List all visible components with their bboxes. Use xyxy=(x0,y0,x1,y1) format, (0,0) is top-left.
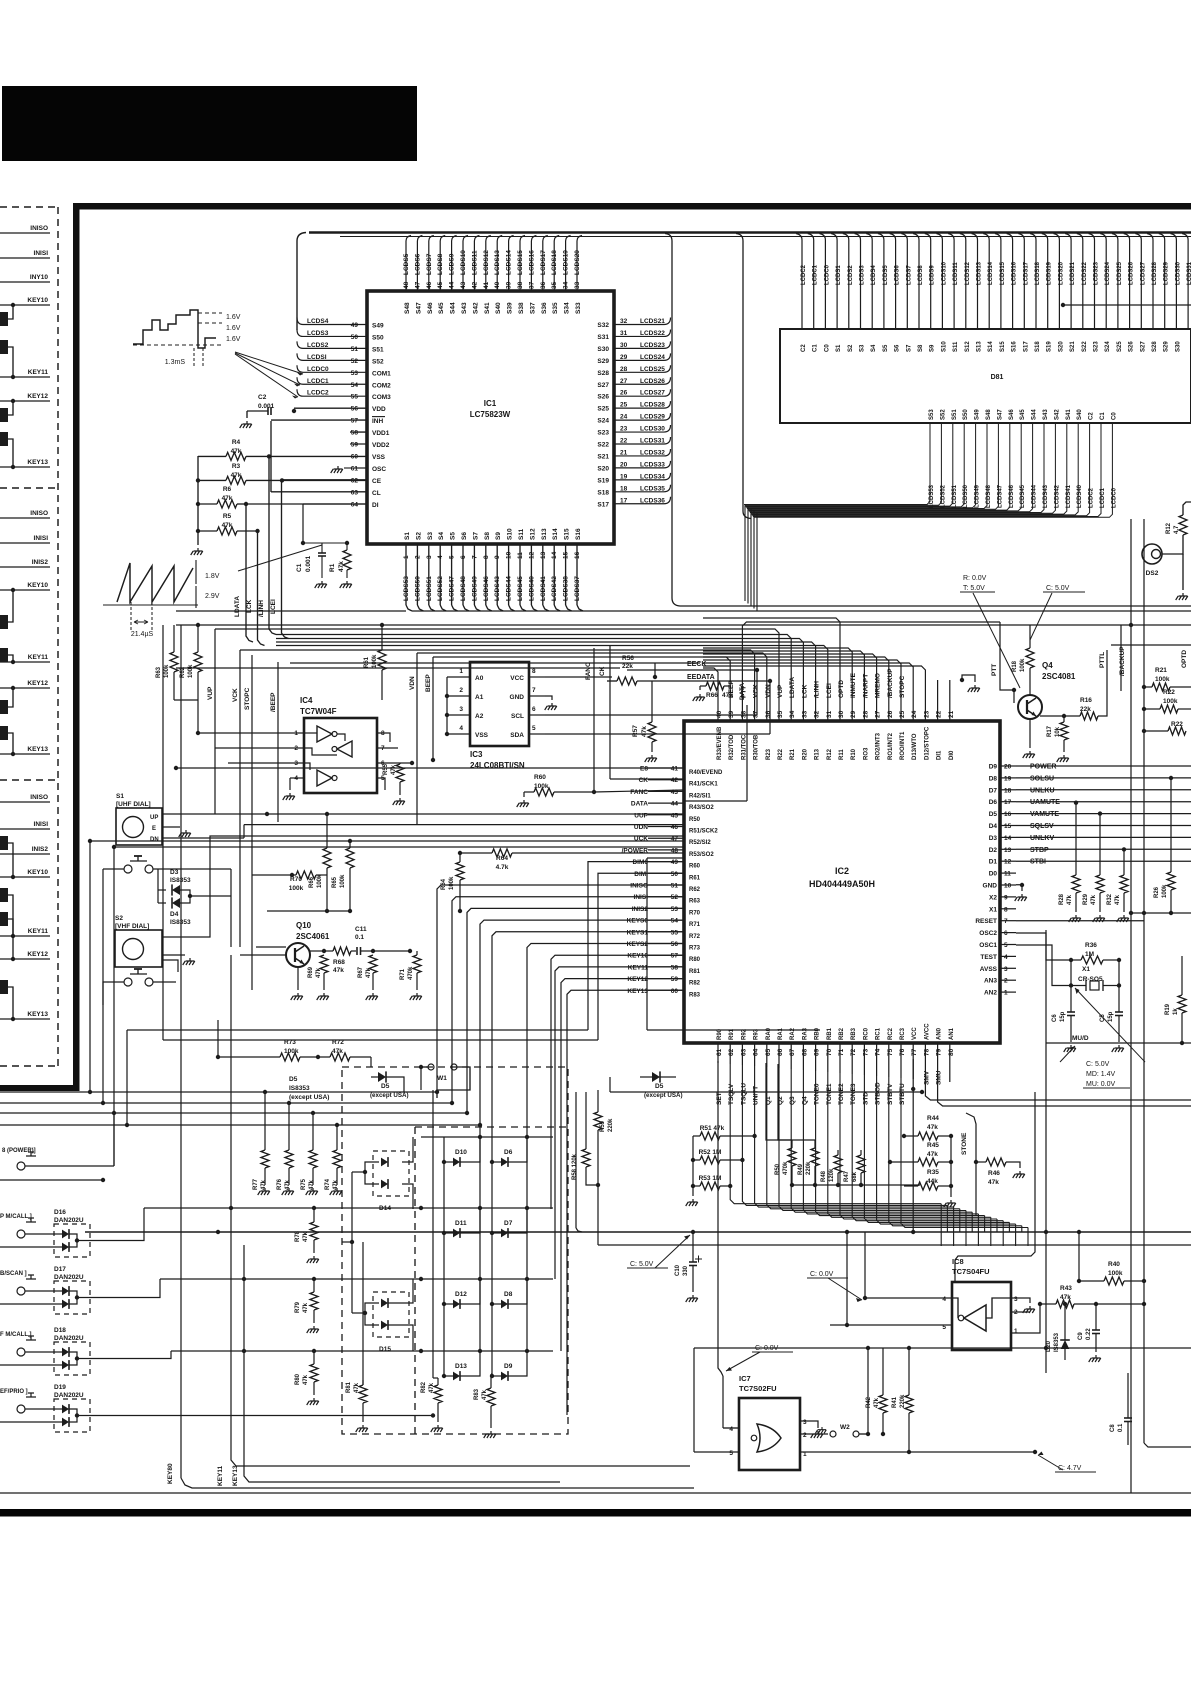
package D15 (dual diode) xyxy=(373,1292,409,1337)
svg-text:LCDS48: LCDS48 xyxy=(986,484,992,508)
svg-text:S11: S11 xyxy=(518,528,525,540)
dashed matrix enclosure outer xyxy=(342,1067,568,1434)
svg-text:S46: S46 xyxy=(427,302,434,314)
svg-text:32: 32 xyxy=(814,710,821,718)
svg-text:STOPC: STOPC xyxy=(244,687,251,710)
svg-text:RO1/INT2: RO1/INT2 xyxy=(888,732,894,760)
svg-text:S44: S44 xyxy=(1032,409,1038,420)
svg-text:AVSS: AVSS xyxy=(980,966,998,973)
frame bottom-left arm xyxy=(0,1085,79,1091)
wire/pin D81 top LCDS24 xyxy=(1100,234,1106,330)
wire/pin D81 top LCDS4 xyxy=(866,234,872,330)
svg-text:64: 64 xyxy=(753,1048,760,1056)
svg-text:9: 9 xyxy=(494,555,501,559)
svg-text:STONE: STONE xyxy=(961,1132,968,1155)
svg-text:S3: S3 xyxy=(860,344,866,352)
svg-text:51: 51 xyxy=(351,346,359,353)
svg-text:VCC: VCC xyxy=(510,675,524,682)
svg-text:R58 120k: R58 120k xyxy=(572,1153,578,1180)
svg-text:D7: D7 xyxy=(989,787,998,794)
svg-text:S40: S40 xyxy=(1077,409,1083,420)
svg-text:LCDS14: LCDS14 xyxy=(506,250,513,275)
svg-text:11: 11 xyxy=(1004,871,1011,878)
wire y1092 right segment xyxy=(609,1077,611,1092)
wire matrix row 1 xyxy=(421,1136,553,1138)
svg-text:47k: 47k xyxy=(988,1179,999,1186)
svg-text:R50: R50 xyxy=(689,817,701,823)
inverter U4b xyxy=(337,741,352,757)
wire/pin D81 top LCDC1 xyxy=(808,234,814,330)
wire riser D19 xyxy=(90,1415,170,1417)
svg-text:VDD: VDD xyxy=(372,406,386,413)
svg-text:D19: D19 xyxy=(54,1384,66,1391)
svg-text:IC1: IC1 xyxy=(484,399,497,408)
svg-text:48: 48 xyxy=(671,847,679,854)
svg-text:DAN202U: DAN202U xyxy=(54,1274,84,1281)
ground IC2 pins 22/21 xyxy=(960,678,964,682)
IC2 pin 33 xyxy=(276,639,803,722)
IC2 pin 35 xyxy=(215,629,779,721)
svg-text:66: 66 xyxy=(777,1048,784,1056)
svg-text:D15: D15 xyxy=(379,1346,391,1353)
svg-text:S41: S41 xyxy=(1066,409,1072,420)
wires Q10 xyxy=(240,954,286,956)
svg-text:38: 38 xyxy=(740,710,747,718)
svg-text:S1: S1 xyxy=(116,793,124,800)
svg-text:R71: R71 xyxy=(400,968,406,980)
op IC1 LC75823W body xyxy=(367,291,614,544)
svg-text:R61: R61 xyxy=(364,656,370,668)
svg-text:470k: 470k xyxy=(783,1161,789,1175)
svg-text:10: 10 xyxy=(506,551,513,559)
svg-text:KEY10: KEY10 xyxy=(27,297,48,304)
svg-text:30: 30 xyxy=(620,342,628,349)
svg-text:43: 43 xyxy=(671,789,679,796)
svg-text:0.001: 0.001 xyxy=(305,555,312,572)
svg-text:S8: S8 xyxy=(484,532,491,540)
svg-text:5: 5 xyxy=(449,555,456,559)
svg-text:S22: S22 xyxy=(597,442,609,449)
svg-text:220k: 220k xyxy=(806,1161,812,1175)
svg-text:D12: D12 xyxy=(455,1291,467,1298)
svg-text:47k: 47k xyxy=(1067,894,1073,905)
IC1 pin 51 S51 xyxy=(297,341,367,348)
svg-text:27: 27 xyxy=(875,710,882,718)
svg-text:2: 2 xyxy=(803,1432,807,1439)
svg-text:120k: 120k xyxy=(829,1168,835,1182)
IC1 pin 46 LCDS7 xyxy=(429,236,434,292)
svg-text:S19: S19 xyxy=(597,477,609,484)
svg-text:41: 41 xyxy=(671,766,679,773)
wire/pin D81 bottom LCDS46 xyxy=(748,423,1010,510)
IC1 pin 6 LCDS48 xyxy=(462,544,464,605)
svg-text:79: 79 xyxy=(936,1048,943,1056)
svg-text:CE: CE xyxy=(372,478,382,485)
svg-text:4: 4 xyxy=(1004,954,1008,961)
svg-text:KEYS2: KEYS2 xyxy=(627,941,649,948)
svg-text:S7: S7 xyxy=(906,344,912,352)
svg-text:D13: D13 xyxy=(455,1363,467,1370)
svg-text:X1: X1 xyxy=(989,906,997,913)
svg-text:UNITT: UNITT xyxy=(753,1086,760,1105)
svg-text:2: 2 xyxy=(414,555,421,559)
svg-text:6: 6 xyxy=(460,555,467,559)
IC2 pin 22 xyxy=(937,680,939,721)
svg-text:[UHF DIAL]: [UHF DIAL] xyxy=(116,801,151,808)
svg-text:LCDS41: LCDS41 xyxy=(540,576,547,601)
svg-text:GND: GND xyxy=(983,883,998,890)
svg-text:18: 18 xyxy=(620,485,628,492)
svg-text:IS8353: IS8353 xyxy=(170,919,191,926)
IC1 pin 5 LCDS47 xyxy=(451,544,453,605)
svg-text:47k: 47k xyxy=(309,1179,315,1190)
svg-text:LCDS15: LCDS15 xyxy=(517,250,524,275)
wires IC7 left xyxy=(723,1427,739,1429)
svg-text:KEY10: KEY10 xyxy=(627,953,648,960)
svg-text:AN0: AN0 xyxy=(937,1027,943,1040)
svg-text:S52: S52 xyxy=(372,358,384,365)
wire left riser x103 xyxy=(102,869,104,1103)
svg-text:LCDS20: LCDS20 xyxy=(1058,261,1064,285)
svg-text:LCDS51: LCDS51 xyxy=(426,576,433,601)
svg-text:LCDS46: LCDS46 xyxy=(483,576,490,601)
wire/pin D81 top LCDS15 xyxy=(995,234,1001,330)
IC2 pin 26 xyxy=(703,657,889,721)
svg-text:35: 35 xyxy=(551,281,558,289)
IC1 pin 41 LCDS12 xyxy=(486,236,491,292)
svg-text:LCDS22: LCDS22 xyxy=(640,330,665,337)
svg-text:52: 52 xyxy=(351,358,359,365)
svg-text:R60: R60 xyxy=(534,774,546,781)
wire/pin D81 top LCDS13 xyxy=(972,234,978,330)
dashed matrix enclosure inner xyxy=(415,1126,568,1128)
svg-text:25: 25 xyxy=(899,710,906,718)
svg-text:C1: C1 xyxy=(296,563,303,572)
wire shared right riser x672 xyxy=(665,234,1191,607)
svg-text:100k: 100k xyxy=(1108,1270,1123,1277)
wire/pin D81 top LCDS19 xyxy=(1042,234,1048,330)
svg-text:R72: R72 xyxy=(332,1039,344,1046)
svg-text:UDN: UDN xyxy=(634,824,648,831)
IC2 pin 25 xyxy=(703,660,901,721)
svg-text:LC75823W: LC75823W xyxy=(470,410,511,419)
wire/pin D81 bottom LCDS51 xyxy=(745,423,953,506)
ground R44 col xyxy=(950,1136,952,1197)
svg-text:3: 3 xyxy=(1014,1296,1018,1303)
svg-text:44: 44 xyxy=(449,281,456,289)
svg-text:7: 7 xyxy=(471,555,478,559)
svg-text:R12: R12 xyxy=(827,748,833,760)
IC1 pin 42 LCDS11 xyxy=(474,236,479,292)
svg-text:S34: S34 xyxy=(564,302,571,314)
svg-text:LCDS5: LCDS5 xyxy=(403,253,410,275)
svg-text:S24: S24 xyxy=(597,418,609,425)
svg-text:100k: 100k xyxy=(340,874,346,888)
svg-text:/BACKUP: /BACKUP xyxy=(887,668,894,698)
IC1 pin 7 LCDS49 xyxy=(473,544,475,605)
svg-text:TC7S02FU: TC7S02FU xyxy=(739,1384,777,1393)
svg-text:R43/SO2: R43/SO2 xyxy=(689,805,714,811)
svg-text:59: 59 xyxy=(671,976,679,983)
wire riser D18 xyxy=(90,1351,171,1359)
svg-text:VCK: VCK xyxy=(753,684,760,698)
IC2 pin 40 xyxy=(703,668,718,721)
svg-text:LCK: LCK xyxy=(801,684,808,698)
crystal X1 body xyxy=(1090,981,1099,990)
IC1 pin 4 LCDS52 xyxy=(439,544,441,605)
wire/pin D81 top LCDS30 xyxy=(1170,234,1176,330)
svg-text:R74: R74 xyxy=(325,1178,331,1190)
svg-text:A1: A1 xyxy=(475,694,484,701)
svg-text:R42: R42 xyxy=(866,1396,872,1408)
svg-text:8: 8 xyxy=(532,668,536,675)
svg-text:42: 42 xyxy=(471,281,478,289)
svg-text:S14: S14 xyxy=(988,341,994,352)
svg-text:STBOD: STBOD xyxy=(875,1082,882,1105)
svg-text:S20: S20 xyxy=(1058,341,1064,352)
svg-text:RB3: RB3 xyxy=(851,1027,857,1040)
IC1 pin 11 LCDS45 xyxy=(519,544,521,605)
key switch package (edge) xyxy=(0,615,8,629)
oscillator sawtooth waveform xyxy=(117,563,193,602)
svg-text:S7: S7 xyxy=(472,532,479,540)
svg-text:(except USA): (except USA) xyxy=(289,1094,329,1101)
svg-text:INIS2: INIS2 xyxy=(32,559,49,566)
svg-text:43: 43 xyxy=(460,281,467,289)
svg-text:VSS: VSS xyxy=(475,732,489,739)
wire/pin D81 top LCDS16 xyxy=(1007,234,1013,330)
svg-text:R51/SCK2: R51/SCK2 xyxy=(689,829,718,835)
svg-text:0.1: 0.1 xyxy=(1118,1423,1124,1432)
svg-text:LCDS48: LCDS48 xyxy=(460,576,467,601)
inverter U4c xyxy=(317,770,332,786)
ground DS2 xyxy=(1182,554,1184,590)
IC1 pin 39 LCDS14 xyxy=(509,236,514,292)
svg-text:LCDS50: LCDS50 xyxy=(963,484,969,508)
svg-text:LCDS44: LCDS44 xyxy=(506,576,513,601)
svg-text:LCDC2: LCDC2 xyxy=(1089,487,1095,508)
svg-text:D20: D20 xyxy=(1046,1340,1052,1352)
svg-text:LCDS23: LCDS23 xyxy=(640,342,665,349)
svg-text:S28: S28 xyxy=(1152,341,1158,352)
svg-text:PTTL: PTTL xyxy=(1099,652,1106,668)
IC1 pin 56 VDD xyxy=(294,407,367,409)
svg-text:54: 54 xyxy=(351,382,359,389)
svg-text:CL: CL xyxy=(372,490,381,497)
svg-text:D8: D8 xyxy=(989,775,998,782)
IC2 pin 30 xyxy=(703,618,840,721)
svg-text:C2: C2 xyxy=(801,344,807,352)
svg-text:31: 31 xyxy=(620,330,628,337)
IC1 pin 23 LCDS30 xyxy=(614,425,671,432)
svg-text:DAN202U: DAN202U xyxy=(54,1392,84,1399)
svg-text:POWER: POWER xyxy=(1030,764,1056,771)
svg-text:73: 73 xyxy=(862,1048,869,1056)
key switch package (edge) xyxy=(0,700,8,714)
wire/pin D81 bottom LCDS44 xyxy=(749,423,1032,512)
svg-text:LCDS32: LCDS32 xyxy=(640,449,665,456)
svg-text:R80: R80 xyxy=(689,957,701,963)
svg-text:S53: S53 xyxy=(929,409,935,420)
svg-text:KEY11: KEY11 xyxy=(217,1465,224,1486)
svg-text:RO3: RO3 xyxy=(863,747,869,760)
svg-text:VUP: VUP xyxy=(207,686,214,700)
svg-text:60: 60 xyxy=(671,988,679,995)
wire R43-R40 joint xyxy=(1096,1303,1144,1305)
svg-text:S4: S4 xyxy=(438,532,445,540)
svg-text:LCDS34: LCDS34 xyxy=(640,473,665,480)
op IC3 24LC08BTI/SN body xyxy=(470,662,529,746)
svg-text:LCDC2: LCDC2 xyxy=(307,390,329,397)
wire y1348 bus xyxy=(694,1347,1191,1349)
wire/pin D81 bottom LCDS43 xyxy=(750,423,1044,513)
svg-text:LCDS7: LCDS7 xyxy=(426,253,433,275)
wire/pin D81 top LCDC2 xyxy=(796,234,802,330)
svg-text:S10: S10 xyxy=(507,528,514,540)
svg-text:3: 3 xyxy=(426,555,433,559)
svg-text:VDN: VDN xyxy=(765,684,772,698)
wire STONE lane xyxy=(966,1113,976,1215)
wire CK lane long xyxy=(610,778,684,780)
svg-text:2SC4081: 2SC4081 xyxy=(1042,672,1076,681)
svg-text:48: 48 xyxy=(403,281,410,289)
wire/pin D81 top LCDS9 xyxy=(925,234,931,330)
svg-text:LCDS49: LCDS49 xyxy=(471,576,478,601)
wire riser D17 xyxy=(90,1279,160,1298)
svg-text:33: 33 xyxy=(574,281,581,289)
sawtooth levels xyxy=(195,560,197,584)
svg-text:C10: C10 xyxy=(675,1264,681,1276)
pushbutton SW B xyxy=(124,978,132,986)
svg-text:S26: S26 xyxy=(597,394,609,401)
jumper W1 xyxy=(419,1065,423,1069)
svg-text:19: 19 xyxy=(1004,775,1012,782)
IC2 pin 24 xyxy=(703,663,913,721)
svg-text:R: 0.0V: R: 0.0V xyxy=(963,575,987,582)
svg-text:S4: S4 xyxy=(871,344,877,352)
wire/pin D81 top LCDS6 xyxy=(890,234,896,330)
svg-text:S50: S50 xyxy=(372,334,384,341)
svg-text:DI: DI xyxy=(372,502,379,509)
svg-text:63: 63 xyxy=(740,1048,747,1056)
svg-text:INISI: INISI xyxy=(634,894,649,901)
svg-text:18: 18 xyxy=(1004,787,1012,794)
svg-text:LCDS5: LCDS5 xyxy=(883,265,889,285)
wire key lane 4 xyxy=(467,908,684,1113)
svg-text:LCDC2: LCDC2 xyxy=(801,264,807,285)
svg-text:R47: R47 xyxy=(844,1170,850,1182)
svg-text:R12: R12 xyxy=(1166,522,1172,534)
svg-text:C8: C8 xyxy=(1110,1424,1116,1432)
bottom thin rule xyxy=(0,1492,1191,1494)
svg-text:LCDS21: LCDS21 xyxy=(640,318,665,325)
svg-text:S9: S9 xyxy=(930,344,936,352)
IC1 pin 48 LCDS5 xyxy=(406,236,411,292)
svg-text:S43: S43 xyxy=(1043,409,1049,420)
svg-text:S45: S45 xyxy=(1020,409,1026,420)
svg-text:LCDS10: LCDS10 xyxy=(941,261,947,285)
IC1 pin 44 LCDS9 xyxy=(452,236,457,292)
svg-text:70: 70 xyxy=(826,1048,833,1056)
wire GND pin 10 xyxy=(1016,885,1022,891)
svg-text:X2: X2 xyxy=(989,894,997,901)
svg-text:R60: R60 xyxy=(689,864,701,870)
svg-text:LCDS19: LCDS19 xyxy=(563,250,570,275)
svg-text:47k: 47k xyxy=(1091,894,1097,905)
IC1 pin 20 LCDS33 xyxy=(614,461,671,468)
svg-text:4: 4 xyxy=(729,1426,733,1433)
wire/pin D81 top LCDS25 xyxy=(1112,234,1118,330)
svg-text:UNLKU: UNLKU xyxy=(1030,787,1055,794)
svg-text:S41: S41 xyxy=(484,302,491,314)
svg-text:R81: R81 xyxy=(689,969,701,975)
svg-text:1: 1 xyxy=(1004,990,1008,997)
svg-text:S17: S17 xyxy=(597,501,609,508)
svg-text:LCDS37: LCDS37 xyxy=(574,576,581,601)
svg-text:KEY12: KEY12 xyxy=(27,393,48,400)
svg-text:RA3: RA3 xyxy=(802,1027,808,1040)
svg-text:C2: C2 xyxy=(1089,412,1095,420)
svg-text:R75: R75 xyxy=(301,1178,307,1190)
svg-text:INISI: INISI xyxy=(34,535,49,542)
svg-text:D5: D5 xyxy=(381,1083,390,1090)
wire/pin D81 top LCDS7 xyxy=(901,234,907,330)
svg-text:C: 4.7V: C: 4.7V xyxy=(1058,1465,1082,1472)
svg-text:KEY11: KEY11 xyxy=(628,964,649,971)
svg-text:67: 67 xyxy=(789,1048,796,1056)
svg-text:VCC: VCC xyxy=(912,1027,918,1040)
svg-text:100k: 100k xyxy=(317,874,323,888)
wire bus y1232 xyxy=(85,1231,1191,1233)
wire/pin D81 bottom LCDC0 xyxy=(754,423,1113,517)
svg-text:S48: S48 xyxy=(404,302,411,314)
svg-text:47k: 47k xyxy=(354,1382,360,1393)
IC1 pin 25 LCDS28 xyxy=(614,401,671,408)
svg-text:21.4µS: 21.4µS xyxy=(131,631,154,638)
arrow fan to LCDC pins xyxy=(235,352,303,374)
wire matrix columns vertical xyxy=(432,1090,434,1378)
svg-text:R16: R16 xyxy=(1080,697,1092,704)
svg-text:S28: S28 xyxy=(597,370,609,377)
wire/pin D81 top LCDS23 xyxy=(1089,234,1095,330)
svg-text:2: 2 xyxy=(459,687,463,694)
svg-text:KEY11: KEY11 xyxy=(28,369,49,376)
svg-text:R82: R82 xyxy=(689,981,701,987)
svg-text:INISO: INISO xyxy=(30,225,48,232)
svg-text:C0: C0 xyxy=(824,344,830,352)
svg-text:STBTU: STBTU xyxy=(899,1083,906,1105)
svg-text:76: 76 xyxy=(899,1048,906,1056)
svg-text:S27: S27 xyxy=(1140,341,1146,352)
IC1 pin 13 LCDS41 xyxy=(542,544,544,605)
svg-text:LCDC0: LCDC0 xyxy=(1111,487,1117,508)
svg-text:LCDS29: LCDS29 xyxy=(640,414,665,421)
wire DI to C1 node xyxy=(302,504,304,543)
key switch package (edge) xyxy=(0,912,8,926)
svg-text:S21: S21 xyxy=(597,453,609,460)
svg-text:4: 4 xyxy=(942,1296,946,1303)
svg-text:C: 5.0V: C: 5.0V xyxy=(630,1261,654,1268)
wire riser D16 xyxy=(90,1208,144,1241)
svg-text:LCDS24: LCDS24 xyxy=(640,354,665,361)
svg-text:63: 63 xyxy=(351,489,359,496)
svg-text:0.001: 0.001 xyxy=(258,403,275,410)
svg-text:R28: R28 xyxy=(1059,893,1065,905)
svg-text:SMU: SMU xyxy=(936,1070,943,1085)
svg-text:LCDS12: LCDS12 xyxy=(483,250,490,275)
svg-text:LCDS15: LCDS15 xyxy=(1000,261,1006,285)
svg-text:14: 14 xyxy=(551,551,558,559)
